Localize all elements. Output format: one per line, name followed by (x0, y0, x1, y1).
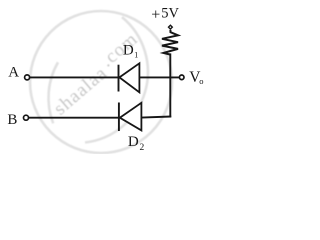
svg-text:+: + (151, 6, 160, 23)
supply diamond terminal (168, 24, 174, 30)
terminal B (24, 115, 29, 120)
diode D2 triangle (120, 103, 142, 131)
terminal A (25, 75, 30, 80)
svg-text:5V: 5V (161, 5, 179, 21)
wire: D2 anode to trunk corner (141, 117, 171, 118)
svg-text:B: B (7, 112, 17, 128)
wire: B to D2 cathode (29, 117, 119, 119)
svg-text:2: 2 (140, 143, 145, 153)
resistor R (162, 30, 178, 55)
svg-text:D: D (128, 134, 139, 150)
svg-text:1: 1 (134, 50, 138, 59)
watermark circle 1 (30, 11, 172, 153)
wire: D1 anode to output (139, 76, 179, 78)
svg-text:shaalaa: shaalaa (50, 63, 112, 120)
svg-text:o: o (199, 76, 203, 86)
diode D2 cathode bar (118, 103, 120, 132)
watermark left pinch arc (48, 62, 58, 123)
diode D1 triangle (119, 63, 139, 92)
svg-text:D: D (123, 43, 134, 59)
diode D1 cathode bar (118, 65, 120, 92)
output terminal Vo circle (179, 75, 184, 80)
wire: A to D1 cathode (30, 76, 118, 78)
wire: resistor to junction to corner (vertical trunk) (169, 53, 171, 117)
watermark circle 2 (right half arc) (85, 17, 148, 142)
svg-text:A: A (8, 65, 19, 81)
